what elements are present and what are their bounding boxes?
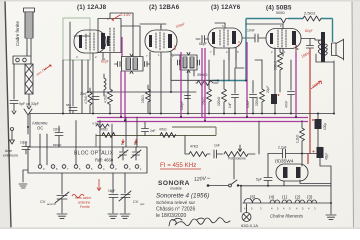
svg-text:40µF: 40µF [325,153,329,160]
svg-text:Sonorette 4 (1956): Sonorette 4 (1956) [156,193,209,200]
svg-text:200kΩ: 200kΩ [274,60,278,70]
svg-text:osc: osc [140,202,145,206]
svg-text:Réf: 4660: Réf: 4660 [95,158,114,163]
svg-text:63Ω-0,1A: 63Ω-0,1A [241,223,258,228]
svg-text:10nF: 10nF [247,29,255,33]
svg-text:CV: CV [40,200,46,204]
svg-text:(3): (3) [307,195,313,200]
svg-text:22nF: 22nF [80,92,87,96]
svg-text:47kΩ: 47kΩ [190,145,198,149]
svg-text:220kΩ: 220kΩ [255,96,259,106]
svg-text:68p: 68p [66,103,71,107]
svg-text:(4): (4) [269,195,275,200]
svg-text:47kΩ: 47kΩ [100,128,108,132]
svg-text:extérieure: extérieure [3,154,18,158]
svg-text:accord: accord [47,202,56,206]
svg-text:BLOC OPTALIX: BLOC OPTALIX [74,151,114,157]
svg-text:Cadre ferrite: Cadre ferrite [15,20,20,46]
svg-text:68pF: 68pF [199,42,207,46]
svg-text:(2) 12BA6: (2) 12BA6 [149,4,180,11]
svg-text:10pF: 10pF [20,141,27,145]
svg-text:500Ω: 500Ω [276,11,285,15]
svg-text:2nF: 2nF [150,129,156,133]
svg-text:100pF: 100pF [180,101,184,110]
svg-text:Pot. volume: Pot. volume [228,157,246,161]
svg-text:le 18/03/2020: le 18/03/2020 [156,213,187,219]
svg-text:(1): (1) [282,195,288,200]
svg-text:18pF: 18pF [108,189,115,193]
svg-text:Chaîne filaments: Chaîne filaments [270,214,304,219]
svg-text:Schéma relevé sur: Schéma relevé sur [156,200,196,205]
svg-text:modèle: modèle [170,187,182,191]
svg-text:22nF: 22nF [53,128,60,132]
svg-text:Châssis n° 72026: Châssis n° 72026 [156,207,195,213]
svg-text:1nF: 1nF [214,144,220,148]
svg-text:1,2kΩ: 1,2kΩ [296,134,300,143]
svg-text:4,7kΩ: 4,7kΩ [84,95,88,104]
svg-text:1nF: 1nF [228,102,232,108]
svg-text:22µF: 22µF [266,86,270,93]
svg-text:820pF: 820pF [53,143,62,147]
svg-text:Vers cadre: Vers cadre [75,196,91,200]
svg-text:Ferrite: Ferrite [80,205,90,209]
svg-text:47kΩ: 47kΩ [159,128,167,132]
svg-text:82pF: 82pF [305,29,313,33]
svg-text:220kΩ: 220kΩ [217,96,221,106]
svg-text:FI = 455 KHz: FI = 455 KHz [160,162,196,169]
svg-text:(2): (2) [295,195,301,200]
svg-text:2,5KΩ: 2,5KΩ [304,11,315,16]
svg-text:2-14V: 2-14V [120,12,131,17]
svg-text:6,8nF: 6,8nF [246,100,250,108]
svg-text:100µ: 100µ [323,123,327,130]
svg-text:(3) 12AY6: (3) 12AY6 [211,4,241,11]
svg-text:Ame: Ame [5,149,12,153]
svg-text:150Ω: 150Ω [141,95,145,103]
svg-text:2,2µF: 2,2µF [278,146,287,150]
svg-text:CV: CV [133,200,139,204]
svg-text:5µF: 5µF [256,178,262,182]
svg-text:OC: OC [37,126,43,131]
svg-text:4,7kΩ: 4,7kΩ [92,122,101,126]
svg-text:antenne: antenne [78,201,90,205]
svg-text:(1) 12AJ8: (1) 12AJ8 [77,4,107,11]
svg-text:47nF: 47nF [285,101,289,108]
